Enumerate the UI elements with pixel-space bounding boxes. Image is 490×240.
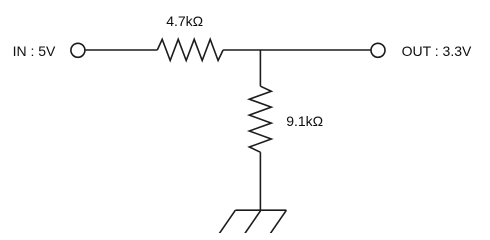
svg-text:IN : 5V: IN : 5V (13, 43, 56, 59)
output terminal (OUT) (371, 43, 385, 57)
label: 9.1kΩ value of vertical resistor (286, 113, 323, 129)
label: 4.7kΩ value of horizontal resistor (166, 13, 203, 29)
label: OUT : 3.3V (402, 43, 472, 59)
wire: resistor 4.7k to output terminal, through node T (223, 49, 371, 51)
input terminal (IN) (71, 43, 85, 57)
wire: resistor 9.1k to ground (259, 152, 261, 210)
resistor 4.7kΩ (horizontal) (157, 39, 223, 60)
svg-text:OUT : 3.3V: OUT : 3.3V (402, 43, 472, 59)
resistor 9.1kΩ (vertical) (249, 86, 271, 152)
wire: input terminal to resistor 4.7k (85, 49, 157, 51)
ground (chassis ground symbol) (219, 210, 286, 234)
svg-text:4.7kΩ: 4.7kΩ (166, 13, 203, 29)
svg-text:9.1kΩ: 9.1kΩ (286, 113, 323, 129)
wire: node T down to resistor 9.1k (259, 50, 261, 86)
label: IN : 5V (13, 43, 56, 59)
